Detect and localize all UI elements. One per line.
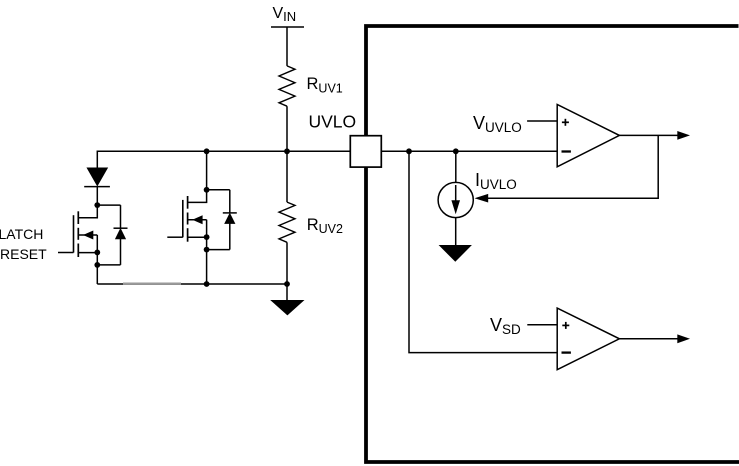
- wire node B to bottom rail: [96, 265, 98, 284]
- svg-text:LATCH: LATCH: [0, 226, 43, 242]
- wire U1 feedback to IUVLO: [487, 135, 658, 198]
- node: M2 source dot: [204, 234, 210, 240]
- arrow U2 output: [677, 334, 690, 343]
- node: M1 source dot: [94, 250, 100, 256]
- node B: M1 source / body diode junction: [94, 262, 100, 268]
- wire RUV2 to bottom rail: [286, 242, 288, 284]
- wire node D to bottom rail: [206, 250, 208, 284]
- resistor RUV1: [279, 66, 295, 106]
- transistor M1: [58, 205, 97, 257]
- transistor M2: [167, 190, 206, 242]
- wire rail to RUV2: [286, 151, 288, 202]
- wire rail to IUVLO: [455, 151, 457, 182]
- wire RUV1 to UVLO rail: [286, 106, 288, 151]
- wire main rail left of pin: [97, 151, 350, 168]
- ground G2: [439, 245, 472, 262]
- body diode DB1 of M1: [114, 205, 128, 265]
- op-amp U2: [557, 308, 619, 370]
- wire rail to M2 drain: [206, 151, 208, 190]
- node A: M1 drain / diode junction: [94, 202, 100, 208]
- wire VUVLO to U1 plus input: [527, 120, 557, 122]
- wire M1 source to node B: [96, 252, 98, 265]
- node D: M2 source / body diode junction: [204, 247, 210, 253]
- wire node A to body diode DB1: [97, 204, 120, 206]
- svg-text:RESET: RESET: [0, 246, 47, 262]
- wire rail to U2 minus input: [409, 151, 557, 352]
- wire IUVLO to ground: [455, 218, 457, 245]
- diode D1: [84, 168, 110, 205]
- wire node B to DB1 bottom: [97, 264, 120, 266]
- wire U2 output: [619, 338, 678, 340]
- node dot bottom rail / ground: [284, 281, 290, 287]
- op-amp U1: [557, 105, 619, 167]
- wire U1 output: [619, 134, 678, 136]
- wire main rail right of pin: [381, 150, 557, 152]
- wire bottom rail: [97, 283, 287, 285]
- wire node D to DB2 bottom: [207, 249, 230, 251]
- UVLO pin square: [350, 136, 381, 167]
- node dot rail/IUVLO branch: [453, 148, 459, 154]
- node dot rail/comparator U2 branch: [406, 148, 412, 154]
- arrow U1 output: [677, 131, 690, 140]
- node dot rail/M2: [204, 148, 210, 154]
- resistor RUV2: [279, 202, 295, 242]
- VIN terminal bar: [271, 26, 304, 28]
- ground G1: [270, 300, 304, 315]
- svg-text:UVLO: UVLO: [309, 112, 357, 132]
- IC boundary: [366, 26, 739, 462]
- node dot rail/RUV2: [284, 148, 290, 154]
- node C: M2 drain / diode junction: [204, 187, 210, 193]
- body diode DB2 of M2: [223, 190, 237, 250]
- wire VIN to RUV1: [286, 27, 288, 66]
- wire VSD to U2 plus input: [527, 324, 557, 326]
- current source IUVLO: [438, 182, 473, 217]
- wire node C to body diode DB2: [207, 189, 230, 191]
- wire M2 source to node D: [206, 237, 208, 250]
- node dot bottom rail / M2: [204, 281, 210, 287]
- arrow feedback into IUVLO: [475, 194, 489, 203]
- wire bottom rail gray overlap segment: [123, 283, 181, 285]
- wire bottom rail to ground: [286, 284, 288, 300]
